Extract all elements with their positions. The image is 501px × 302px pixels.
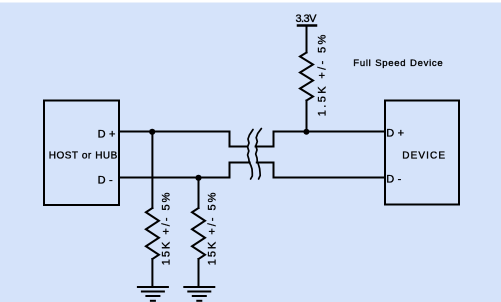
svg-text:D -: D -: [98, 174, 113, 186]
svg-text:1.5K +/- 5%: 1.5K +/- 5%: [317, 32, 329, 116]
svg-text:D +: D +: [98, 128, 116, 140]
svg-text:15K +/- 5%: 15K +/- 5%: [161, 191, 173, 266]
svg-text:Full Speed Device: Full Speed Device: [353, 58, 443, 69]
svg-text:DEVICE: DEVICE: [402, 151, 446, 162]
svg-text:HOST or HUB: HOST or HUB: [49, 151, 118, 162]
svg-text:15K +/- 5%: 15K +/- 5%: [207, 191, 219, 266]
svg-text:3.3V: 3.3V: [296, 13, 318, 25]
svg-text:D -: D -: [386, 173, 401, 185]
svg-text:D +: D +: [386, 128, 404, 140]
